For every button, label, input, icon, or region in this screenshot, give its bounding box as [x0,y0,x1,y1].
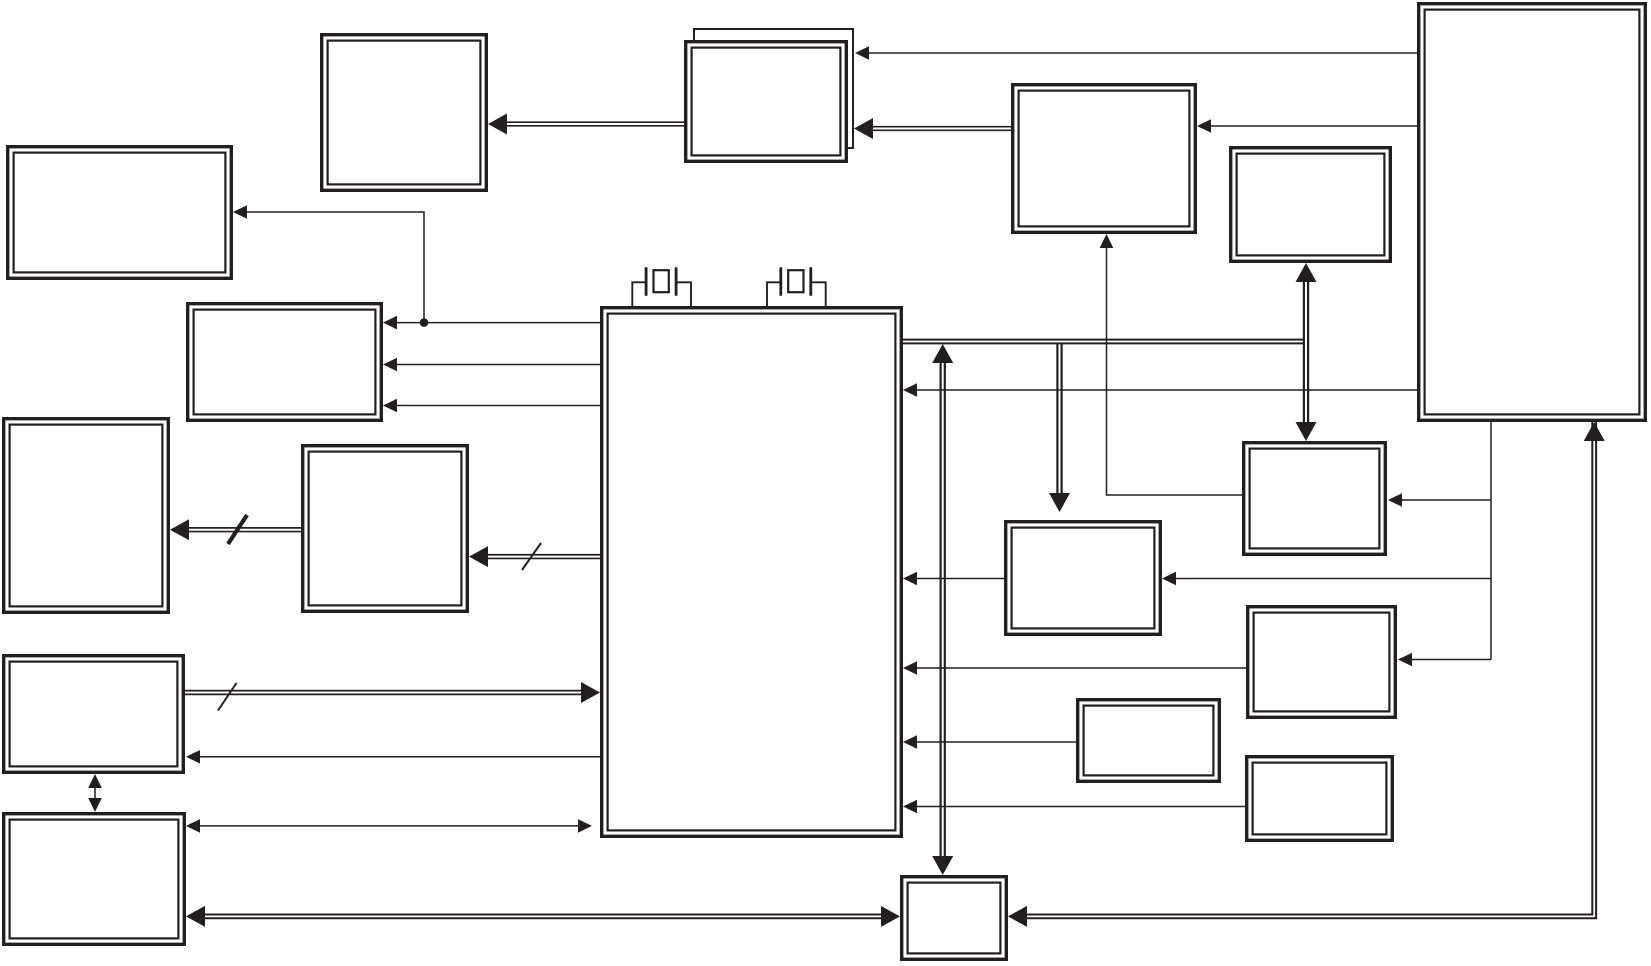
block B11 (center-right) [1006,522,1161,635]
block B15 (right bottom small) [1247,757,1393,841]
junction dot [420,318,429,327]
block B1 (top-left square) [322,35,487,191]
wire W24: BT down to B16 (double line elbow, arrows both ends) [1008,422,1605,927]
block B3 (center-left) [188,304,382,421]
wire W12a: branch to B9 right (thin, arrow left) [1388,493,1491,507]
block B7 (right upper small) [1231,148,1391,262]
block B16 (bottom small) [902,877,1007,960]
wire W21: B14 to CPU (thin, arrows both ends) [186,819,592,833]
wire W8: bus down to B16 vertical double-headed arrow [932,344,953,875]
block B8 (center-left lower) [303,446,468,612]
block B4 (top-center stacked) [686,42,847,162]
wire W20: CPU to B10 (thin, arrow left) [186,750,600,764]
wire W5b: CPU to B3 middle line (thin, arrow left) [383,358,600,372]
wire W12c: branch to B12 right (thin, arrow left) [1398,653,1491,667]
wire W9: bus down to B11 (double line, arrow down) [1049,343,1070,512]
wire W23: B14 to B16 (double line, arrows both ends) [186,906,900,927]
wire W15: B13 to CPU (thin, arrow left) [903,735,1076,749]
wire W5a branch: junction up to B2 (thin, arrow left) [233,205,424,322]
block B4 shadow (stacked page behind) [694,29,853,148]
wire W5c: CPU to B3 bottom line (thin, arrow left) [383,399,600,413]
wire W6: CPU right bus (double line) [903,340,1304,344]
wire W19: B10 to CPU (double line, arrow right, bus slash) [185,682,600,711]
wire W5a: CPU to B3 top line (thin, arrow left) [383,316,600,330]
block CPU (large central) [602,308,902,837]
wire W1: B4 to B1 (double line, arrow left) [488,114,684,135]
wire W3: BT to B4 shadow (thin, arrow left) [855,46,1417,60]
crystal X2 [767,267,826,308]
wire W22: B10 to B14 vertical double-headed arrow [88,774,102,812]
wire W7: B7 to B9 vertical double-headed arrow [1296,263,1317,441]
wire W16: B15 to CPU (thin, arrow left) [903,800,1245,814]
wire W2: B6 to B4 (double line, arrow left) [854,118,1011,139]
wire W4: BT to B6 (thin, arrow left) [1197,119,1417,133]
wire W12b: branch to B11 right (thin, arrow left) [1162,572,1491,586]
block B2 (left upper) [8,147,232,279]
crystal X1 [632,267,691,308]
wire W14: B12 to CPU (thin, arrow left) [903,661,1246,675]
wire W13: B11 to CPU (thin, arrow left) [903,572,1004,586]
block B5 (far-left middle) [4,419,169,613]
block B12 (right lower) [1248,607,1396,718]
wire W10: B9 left up to B6 bottom (thin, arrow up) [1100,234,1242,495]
block BT (tall right) [1419,4,1646,421]
wire W17: B8 to B5 (double line, arrow left, thick bus slash) [170,515,301,544]
block B14 (bottom-left lower) [4,814,185,945]
wire W18: CPU to B8 (double line, arrow left, bus slash) [469,543,600,570]
block B13 (center lower small) [1078,700,1220,782]
block B9 (right middle) [1244,443,1386,555]
wire W12: BT bottom vertical feeder [1490,422,1492,660]
block B10 (bottom-left upper) [4,656,184,773]
wire W11: BT to CPU (thin, arrow left) [903,383,1417,397]
block B6 (top-right) [1013,85,1196,233]
